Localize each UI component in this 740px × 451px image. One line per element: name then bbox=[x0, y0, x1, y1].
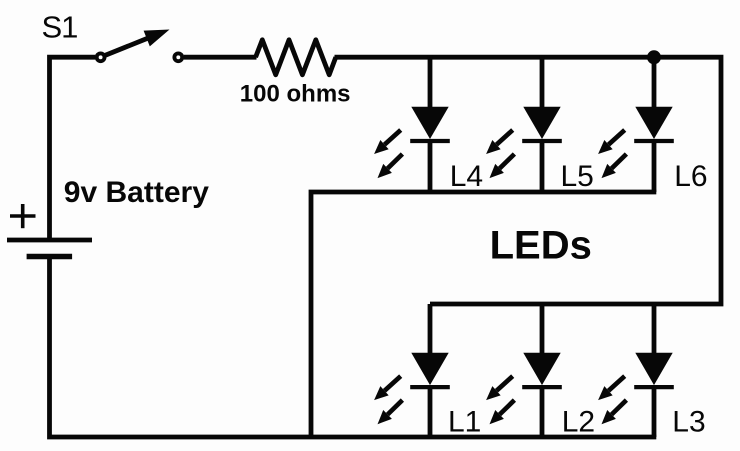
svg-text:L5: L5 bbox=[561, 160, 594, 193]
svg-text:L4: L4 bbox=[450, 160, 483, 193]
svg-text:L2: L2 bbox=[562, 405, 595, 438]
svg-text:S1: S1 bbox=[42, 10, 78, 45]
svg-text:L3: L3 bbox=[672, 405, 705, 438]
svg-text:L1: L1 bbox=[448, 405, 481, 438]
svg-text:100 ohms: 100 ohms bbox=[240, 81, 351, 108]
svg-text:L6: L6 bbox=[674, 160, 707, 193]
svg-text:LEDs: LEDs bbox=[490, 224, 592, 268]
svg-text:9v Battery: 9v Battery bbox=[64, 176, 209, 209]
